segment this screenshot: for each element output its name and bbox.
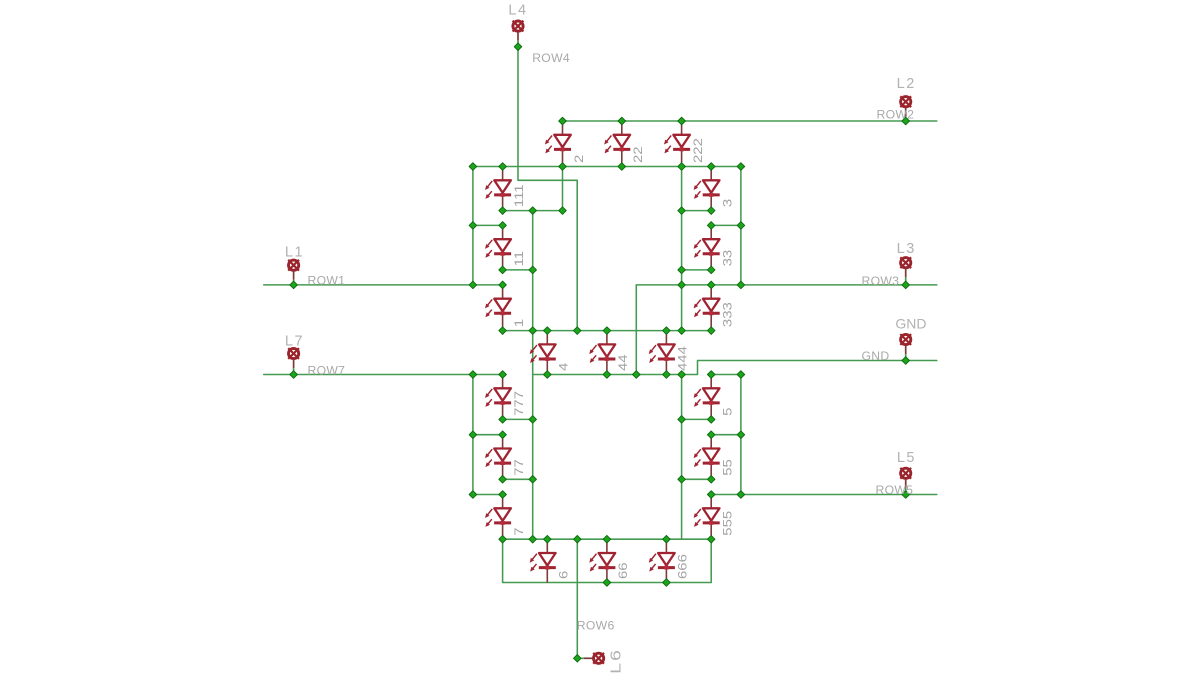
svg-text:111: 111 [513,184,526,207]
junction rail-G at c3 [529,327,537,335]
junction y2 LED3 cathode [707,207,715,215]
svg-text:11: 11 [513,251,526,267]
wire node row y8 left (LED777 cathode) [503,418,533,420]
junction y8 at c3 [529,416,537,424]
wire node row y11 left (LED7 anode) [473,494,503,496]
junction y11 LED7 anode [499,491,507,499]
wire net ROW4 run from L4 [518,47,577,331]
junction y10 LED55 cathode [707,476,715,484]
junction ROW6 at pin L6 [574,655,582,663]
junction C-top LED5 anode [707,371,715,379]
junction ROW2 at LED222 anode [678,117,686,125]
junction ROW7 at c1 [469,371,477,379]
LED 555 [694,495,720,540]
junction ROW1 at c1 [469,281,477,289]
junction GND rail LED44 cathode [603,371,611,379]
wire node row y10 right (LED55 cathode) [682,478,712,480]
LED 2 [545,121,571,167]
connector pin L4 [513,21,524,47]
svg-text:5: 5 [721,408,734,416]
svg-text:L2: L2 [897,76,916,92]
svg-text:ROW6: ROW6 [577,618,615,632]
junction y10 at c11 [678,476,686,484]
junction rail-D LED6 anode [544,535,552,543]
svg-text:22: 22 [632,146,645,163]
junction GND rail LED444 cathode [663,371,671,379]
LED 55 [694,435,720,480]
LED 111 [485,167,511,211]
svg-text:L6: L6 [607,648,624,674]
svg-text:3: 3 [721,199,734,207]
wire node row y3 left (LED11 anode) [473,224,503,226]
junction ROW3 at pin L3 [902,281,910,289]
junction y4 LED33 cathode [707,266,715,274]
LED 222 [664,121,690,167]
LED 3 [694,167,720,211]
svg-text:1: 1 [513,319,526,327]
wire LED2 cathode stub [562,167,564,211]
wire node row y2 right (LED3 cathode) [682,210,712,212]
wire right bypass rail c14 lower [740,375,742,495]
wire node row y4 right (LED33 cathode) [682,269,712,271]
junction rail-D LED66 anode [603,535,611,543]
connector pin L7 [288,348,299,374]
junction ROW4 at pin L4 [514,43,522,51]
junction y9 at c14 [737,431,745,439]
wire net ROW7 [264,374,503,376]
wire right bypass rail c14 upper [740,167,742,285]
LED 777 [485,375,511,420]
svg-text:777: 777 [513,391,526,416]
LED 666 [649,539,675,582]
wire ROW3 drop to GND rail [635,285,637,375]
junction rail-D LED7 cathode [499,535,507,543]
junction GND rail at c11 [678,371,686,379]
wire right side rail c11 upper [681,167,683,331]
junction y3 at c1 [469,222,477,230]
junction ROW2 at pin L2 [902,117,910,125]
wire node row y9 right (LED55 anode) [711,434,741,436]
LED 6 [530,539,556,582]
connector pin L6 [584,653,604,664]
junction ROW5 LED555 anode [707,491,715,499]
svg-text:L7: L7 [285,333,304,349]
svg-text:444: 444 [676,345,689,371]
wire node row y8 right (LED5 cathode) [682,418,712,420]
svg-text:ROW2: ROW2 [877,108,915,122]
LED 5 [694,375,720,420]
svg-text:555: 555 [721,511,734,536]
junction y8 LED777 cathode [499,416,507,424]
junction D-bottom LED666 cathode [663,579,671,587]
wire net ROW6 drop [576,539,578,658]
wire net ROW2 top rail [563,120,937,122]
junction ROW3 at c14 [737,281,745,289]
svg-text:ROW3: ROW3 [862,274,900,288]
junction ROW5 at pin L5 [902,491,910,499]
LED 1 [485,285,511,331]
junction GND at pin [902,357,910,365]
LED 77 [485,435,511,480]
junction rail-A at LED3 anode [707,163,715,171]
wire segment-D bottom loop [503,539,712,582]
junction ROW7 LED777 anode [499,371,507,379]
svg-text:4: 4 [557,362,570,371]
LED 7 [485,495,511,540]
junction rail-G LED444 anode [663,327,671,335]
connector pin L2 [900,96,911,121]
junction ROW2 at LED22 anode [618,117,626,125]
connector pin GND [900,334,911,360]
wire node row y4 left (LED11 cathode) [503,269,533,271]
svg-text:ROW7: ROW7 [308,363,346,377]
svg-text:33: 33 [721,250,734,267]
junction rail-G LED4 anode [544,327,552,335]
junction rail-D LED666 anode [663,535,671,543]
connector pin L5 [900,468,911,495]
junction C-top at c14 [737,371,745,379]
wire left side rail c1 lower [472,375,474,495]
wire segment-G top rail [503,330,712,332]
junction y10 LED77 cathode [499,476,507,484]
junction y2 at c3 [529,207,537,215]
svg-text:ROW1: ROW1 [308,274,346,288]
junction rail-A at LED2 cathode [559,163,567,171]
junction rail-D LED555 cathode [707,535,715,543]
junction ROW3 at c11 [678,281,686,289]
junction y2 LED111 cathode [499,207,507,215]
wire segment-A bottom rail (net N1) [473,166,741,168]
junction GND rail LED4 cathode [544,371,552,379]
svg-text:L3: L3 [897,241,916,257]
wire net ROW1 [264,284,503,286]
junction y4 at c11 [678,266,686,274]
LED 333 [694,285,720,331]
junction rail-A at LED111 anode [499,163,507,171]
svg-text:GND: GND [895,315,926,331]
junction rail-G at c11 [678,327,686,335]
junction ROW5 at c14 [737,491,745,499]
junction rail-A at LED22 cathode [618,163,626,171]
svg-text:66: 66 [617,562,630,579]
wire segment-D top rail [503,538,712,540]
LED 33 [694,225,720,270]
junction ROW1 at pin L1 [290,281,298,289]
junction ROW7 at pin L7 [290,371,298,379]
svg-text:L1: L1 [285,245,304,261]
svg-text:2: 2 [572,155,585,163]
junction rail-D at c3 [529,535,537,543]
wire node row y9 left (LED77 anode) [473,434,503,436]
wire ROW6 stub to pin L6 [577,657,584,659]
junction y9 at c1 [469,431,477,439]
connector pin L1 [288,260,299,285]
junction y2 at c11 [678,207,686,215]
junction y4 at c3 [529,266,537,274]
junction y3 LED11 anode [499,222,507,230]
junction y9 LED55 anode [707,431,715,439]
wire right side rail c11 lower [681,375,683,540]
wire node row y3 right (LED33 anode) [711,224,741,226]
junction rail-A at c14 [737,163,745,171]
svg-text:ROW4: ROW4 [532,51,570,65]
wire net GND run [533,361,937,375]
LED 44 [589,331,615,375]
wire left bypass rail c3 [532,211,534,540]
svg-text:6: 6 [557,571,570,579]
junction y3 at c14 [737,222,745,230]
junction rail-D at ROW6 [574,535,582,543]
LED 66 [589,539,615,582]
svg-text:L5: L5 [897,450,916,466]
svg-text:666: 666 [676,554,689,579]
junction rail-G LED333 cathode [707,327,715,335]
LED 4 [530,331,556,375]
junction y4 LED11 cathode [499,266,507,274]
junction y8 LED5 cathode [707,416,715,424]
wire segment-C top (LED5 anode) [711,374,741,376]
junction y10 at c3 [529,476,537,484]
svg-text:222: 222 [692,138,705,163]
svg-text:L4: L4 [508,3,527,19]
junction y2 at c5 [559,207,567,215]
junction rail-A at c1 [469,163,477,171]
svg-text:77: 77 [513,459,526,476]
junction y11 at c1 [469,491,477,499]
svg-text:44: 44 [617,354,630,371]
LED 22 [604,121,630,167]
junction GND rail at ROW3 drop [633,371,641,379]
svg-text:GND: GND [862,349,890,363]
junction rail-G at ROW4 [573,327,581,335]
junction ROW1 LED1 anode [499,281,507,289]
junction D-bottom LED66 cathode [603,579,611,587]
junction y8 at c11 [678,416,686,424]
LED 11 [485,225,511,270]
junction ROW3 LED333 anode [707,281,715,289]
wire net ROW5 [711,494,937,496]
junction ROW2 at LED2 anode [559,117,567,125]
junction y9 LED77 anode [499,431,507,439]
junction rail-G LED1 cathode [499,327,507,335]
svg-text:333: 333 [721,302,734,327]
wire left side rail c1 upper [472,167,474,285]
wire net ROW3 [636,284,937,286]
svg-text:55: 55 [721,459,734,476]
junction rail-A at LED222 cathode [678,163,686,171]
wire node row y2 left (LED111 cathode) [503,210,563,212]
svg-text:ROW5: ROW5 [876,483,914,497]
junction y3 LED33 anode [707,222,715,230]
svg-text:7: 7 [513,527,526,535]
junction rail-G LED44 anode [603,327,611,335]
LED 444 [649,331,675,375]
connector pin L3 [900,257,911,285]
wire node row y10 left (LED77 cathode) [503,478,533,480]
